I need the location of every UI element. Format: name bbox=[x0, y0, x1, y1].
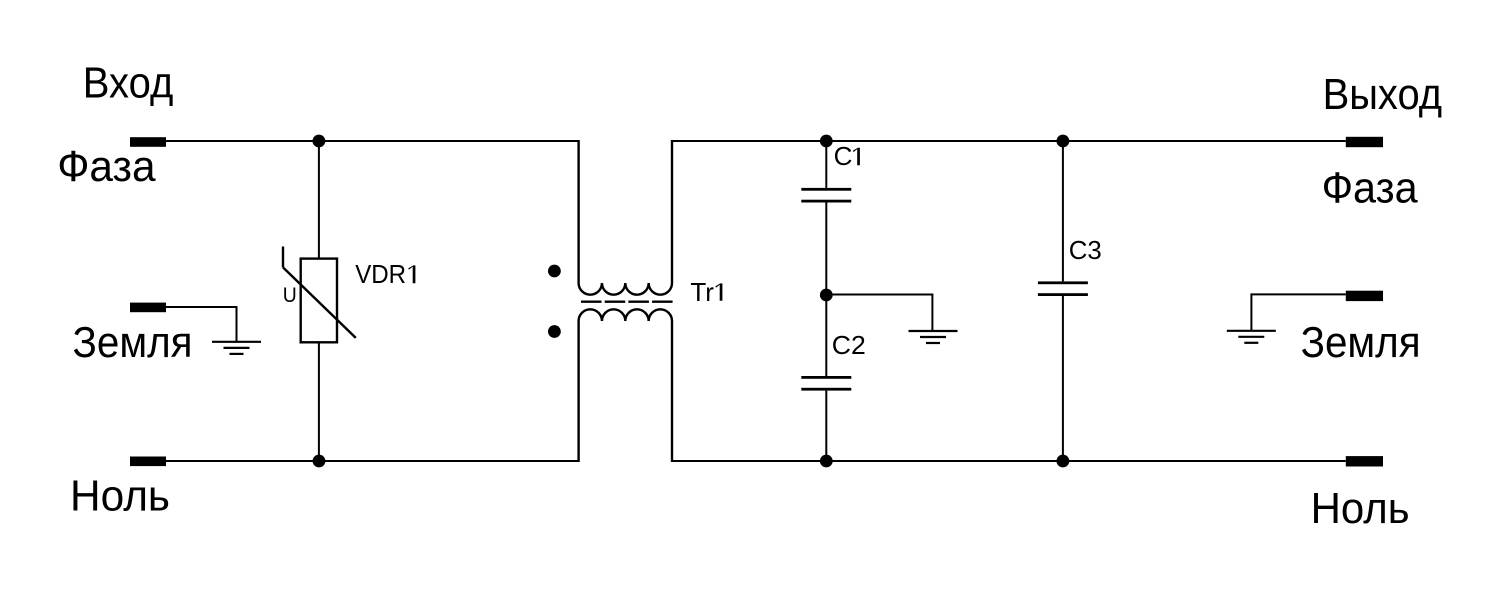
transformer phase dot primary bbox=[548, 265, 561, 278]
svg-text:U: U bbox=[283, 284, 297, 307]
wire top left (phase in to transformer) bbox=[166, 140, 579, 142]
varistor VDR1 diagonal hook bbox=[282, 247, 284, 268]
svg-text:Вход: Вход bbox=[83, 59, 174, 108]
wire C1 to C2 bbox=[825, 203, 827, 377]
transformer phase dot secondary bbox=[548, 325, 561, 338]
wire bottom left (neutral in to transformer) bbox=[166, 460, 579, 462]
capacitor C2 plates bbox=[801, 376, 851, 379]
wire C2 bottom bbox=[825, 391, 827, 461]
svg-text:C: C bbox=[834, 141, 853, 171]
capacitor C1 plates bbox=[801, 188, 851, 191]
svg-text:Ноль: Ноль bbox=[1311, 484, 1410, 533]
transformer Tr1 core bbox=[581, 301, 673, 303]
terminal Ноль input bbox=[130, 457, 166, 467]
terminal Земля output bbox=[1346, 291, 1383, 301]
terminal Фаза input bbox=[130, 137, 166, 147]
svg-text:Земля: Земля bbox=[1301, 318, 1421, 367]
ground symbol output bbox=[1227, 331, 1276, 343]
junction node neutral/C3 bbox=[1057, 455, 1070, 468]
wire bottom right (transformer to neutral out) bbox=[672, 460, 1346, 462]
wire C3 top bbox=[1062, 141, 1064, 281]
junction node neutral/C2 bbox=[820, 455, 833, 468]
ground symbol C1C2 bbox=[909, 331, 958, 343]
terminal Фаза output bbox=[1346, 137, 1383, 147]
svg-text:Выход: Выход bbox=[1323, 70, 1443, 119]
wire C1C2 midpoint to ground bbox=[826, 295, 932, 332]
wire varistor top bbox=[318, 141, 320, 259]
svg-text:C3: C3 bbox=[1069, 235, 1102, 265]
svg-text:Ноль: Ноль bbox=[70, 471, 170, 520]
junction node C1/C2 midpoint bbox=[820, 289, 833, 302]
wire varistor bottom bbox=[318, 342, 320, 461]
svg-text:VDR: VDR bbox=[355, 259, 406, 289]
junction node phase/C1 bbox=[820, 135, 833, 148]
junction node phase/VDR1 bbox=[313, 135, 326, 148]
wire C1 top bbox=[825, 141, 827, 188]
ground symbol input bbox=[212, 342, 261, 354]
svg-text:Фаза: Фаза bbox=[1322, 164, 1418, 213]
capacitor C3 plates bbox=[1038, 281, 1088, 284]
wire C3 bottom bbox=[1062, 296, 1064, 461]
transformer Tr1 primary winding bbox=[579, 140, 672, 295]
terminal Ноль output bbox=[1346, 456, 1383, 466]
terminal Земля input bbox=[130, 303, 166, 313]
svg-text:C2: C2 bbox=[832, 330, 866, 360]
svg-text:Фаза: Фаза bbox=[57, 142, 156, 191]
svg-text:Земля: Земля bbox=[73, 318, 193, 367]
wire earth input bbox=[166, 307, 237, 342]
svg-text:Tr: Tr bbox=[690, 277, 714, 307]
varistor VDR1 body bbox=[301, 259, 337, 343]
junction node neutral/VDR1 bbox=[313, 455, 326, 468]
junction node phase/C3 bbox=[1057, 135, 1070, 148]
wire earth output bbox=[1251, 294, 1345, 330]
wire top right (transformer to phase out) bbox=[672, 140, 1346, 142]
varistor VDR1 diagonal stroke bbox=[283, 267, 356, 338]
transformer Tr1 secondary winding bbox=[579, 309, 672, 462]
